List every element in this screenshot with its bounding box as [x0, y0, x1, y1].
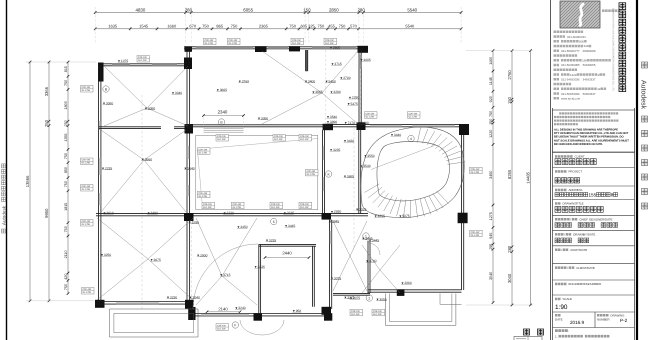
svg-text:50339055: 50339055 — [583, 63, 596, 67]
svg-text:14485: 14485 — [525, 171, 530, 183]
svg-text:C2K-1W: C2K-1W — [471, 231, 481, 234]
svg-text:C2K-1W: C2K-1W — [203, 203, 213, 206]
svg-text:NUMBER: NUMBER — [589, 282, 602, 286]
svg-text:GL1.2W: GL1.2W — [300, 206, 309, 209]
dim extension connectors — [26, 51, 533, 305]
svg-text:BE CHECKED ANDVERIFIED ON SITE: BE CHECKED ANDVERIFIED ON SITE. — [554, 143, 603, 146]
svg-text::: : — [568, 329, 569, 333]
svg-text:DATE: DATE — [555, 318, 563, 322]
svg-text:618: 618 — [584, 44, 589, 48]
svg-text:BY/DATE: BY/DATE — [583, 233, 595, 237]
svg-text:ADDRESS: ADDRESS — [569, 188, 583, 192]
svg-text:GL1.2W: GL1.2W — [373, 313, 382, 316]
svg-text:155: 155 — [589, 193, 597, 198]
svg-text:DESIGNER/DATE: DESIGNER/DATE — [589, 218, 612, 222]
top-left room top wall — [98, 64, 189, 66]
svg-text:750: 750 — [64, 181, 68, 187]
svg-text:CLIENT: CLIENT — [575, 155, 586, 159]
door arc bottom-centre room — [193, 244, 258, 309]
svg-text:1660: 1660 — [167, 24, 177, 29]
right Autodesk watermark text — [640, 62, 648, 209]
svg-text:NOT SCALE DRAWINGS.ALL ARE ASU: NOT SCALE DRAWINGS.ALL ARE ASUREHEMENTS … — [554, 139, 629, 142]
svg-text:865: 865 — [216, 24, 223, 29]
svg-text:12: 12 — [597, 87, 601, 91]
svg-text:2340: 2340 — [218, 110, 228, 115]
svg-text:920: 920 — [489, 96, 493, 102]
svg-text:C2K-1W: C2K-1W — [300, 203, 310, 206]
svg-text:2140: 2140 — [218, 307, 228, 312]
svg-text:CHIEF: CHIEF — [579, 218, 588, 222]
right dim inner — [492, 51, 494, 303]
svg-text:GL1.2W: GL1.2W — [205, 42, 214, 45]
svg-text:670: 670 — [189, 24, 196, 29]
window label boxes — [81, 86, 94, 93]
wall x359 below top — [359, 49, 361, 124]
svg-text:C2K-1W: C2K-1W — [292, 39, 302, 42]
diagonals centre upper space — [262, 51, 358, 124]
hall room outline — [196, 135, 318, 209]
svg-text:C2K-1W: C2K-1W — [138, 56, 148, 59]
svg-text:6055: 6055 — [243, 7, 253, 12]
diagonals left mid room — [101, 130, 186, 212]
wing bottom wall y290 — [368, 290, 462, 292]
svg-text:GL1.2W: GL1.2W — [471, 234, 480, 237]
top dimension chain row1 — [95, 12, 461, 14]
right wing top wall y125 — [323, 125, 469, 127]
svg-text:021-34693336: 021-34693336 — [561, 78, 580, 82]
svg-text:GL1.2W: GL1.2W — [292, 42, 301, 45]
svg-text:www.sy-sj.com: www.sy-sj.com — [561, 97, 581, 101]
top centre wall y47 — [184, 47, 368, 49]
bottom centre wall y313.5 — [195, 314, 324, 316]
svg-text:1220: 1220 — [489, 130, 493, 138]
left Autodesk watermark text — [2, 164, 7, 233]
stair west wall x359.5 — [359, 130, 361, 214]
svg-text:C2K-1W: C2K-1W — [83, 288, 93, 291]
svg-text:1:90: 1:90 — [555, 304, 568, 311]
disclaimer box — [553, 110, 635, 152]
svg-text:1229: 1229 — [570, 73, 577, 77]
balcony bottom-left — [110, 309, 198, 337]
svg-text:TITLE: TITLE — [576, 202, 584, 206]
svg-text:295: 295 — [489, 244, 493, 250]
legend title — [524, 329, 530, 335]
wall x368 lower right rooms — [368, 241, 370, 293]
svg-text:815: 815 — [64, 66, 68, 72]
svg-text:750: 750 — [64, 153, 68, 159]
svg-text:Autodesk: Autodesk — [640, 80, 648, 110]
svg-text:GL1.2W: GL1.2W — [217, 327, 226, 330]
svg-text:800: 800 — [579, 40, 584, 44]
staircase treads top-right — [417, 128, 465, 165]
svg-text:850: 850 — [64, 167, 68, 173]
svg-text:325: 325 — [308, 24, 315, 29]
stub wall x306 — [306, 50, 308, 71]
hall diagonals — [197, 139, 317, 202]
svg-text:5540: 5540 — [405, 24, 415, 29]
svg-text:750: 750 — [64, 226, 68, 232]
svg-text:2016.9: 2016.9 — [570, 320, 584, 325]
svg-text:1145: 1145 — [489, 77, 493, 85]
svg-text:SHANGHAI SHENYUAN BUILDING DEC: SHANGHAI SHENYUAN BUILDING DECORATION EN… — [612, 8, 615, 91]
svg-text:021-56653336: 021-56653336 — [561, 92, 580, 96]
svg-text:GL1.2W: GL1.2W — [366, 115, 375, 118]
svg-text:GL1.2W: GL1.2W — [351, 313, 360, 316]
svg-text:GL1.2W: GL1.2W — [82, 223, 91, 226]
svg-text:GL1.2W: GL1.2W — [199, 151, 208, 154]
left sheet border line — [6, 0, 8, 340]
left dim outer 13566 — [29, 62, 31, 301]
elevation markers — [118, 59, 129, 63]
svg-text:570: 570 — [350, 24, 357, 29]
hall top wall y125 — [185, 125, 330, 127]
svg-text:250: 250 — [44, 119, 49, 127]
svg-text:250: 250 — [64, 120, 68, 126]
svg-text:2110: 2110 — [64, 250, 68, 258]
svg-text:1545: 1545 — [139, 24, 149, 29]
svg-text:3366: 3366 — [44, 86, 49, 96]
wing left wall x322 — [323, 130, 325, 214]
title block rows — [553, 152, 635, 154]
svg-text:8255: 8255 — [507, 169, 512, 179]
svg-text:GL1.2W: GL1.2W — [300, 138, 309, 141]
svg-text:C2K-1W: C2K-1W — [205, 39, 215, 42]
svg-text:GL1.2W: GL1.2W — [307, 173, 316, 176]
svg-text:C2K-1W: C2K-1W — [300, 135, 310, 138]
wall y293 right of room — [333, 293, 370, 295]
svg-text:ALL DESIGNS IN THIS DRAWING AR: ALL DESIGNS IN THIS DRAWING ARE THEPROPE — [554, 129, 618, 132]
svg-text:BE USEDIN THOUT THEIR WRITTEN: BE USEDIN THOUT THEIR WRITTEN PERMISSION… — [554, 136, 624, 139]
svg-text:GL1.2W: GL1.2W — [199, 195, 208, 198]
svg-text:750: 750 — [289, 24, 296, 29]
svg-text:AUDIT/DATE: AUDIT/DATE — [570, 248, 587, 252]
staircase inner eye — [377, 142, 450, 201]
bottom-left exterior wall — [95, 302, 194, 305]
svg-text:1800: 1800 — [64, 101, 68, 109]
svg-text:2440: 2440 — [282, 251, 292, 256]
svg-text:2365: 2365 — [259, 24, 269, 29]
svg-text:605: 605 — [300, 24, 307, 29]
svg-text:420: 420 — [64, 274, 68, 280]
right dim outer 14485 — [530, 51, 532, 305]
staircase outer curve — [361, 127, 464, 218]
door arc balcony bottom — [240, 320, 284, 335]
svg-text:945: 945 — [489, 233, 493, 239]
right sheet border line — [636, 0, 638, 340]
svg-text:GL1.2W: GL1.2W — [229, 42, 238, 45]
svg-text:021-66080434: 021-66080434 — [567, 35, 586, 39]
svg-text:GL1.2W: GL1.2W — [274, 138, 283, 141]
vertical company name — [619, 3, 626, 10]
svg-text:GL1.2W: GL1.2W — [271, 206, 280, 209]
svg-text:C2K-1W: C2K-1W — [233, 203, 243, 206]
svg-text:021-55666777: 021-55666777 — [561, 49, 580, 53]
svg-text:GL1.2W: GL1.2W — [409, 115, 418, 118]
svg-text:DRAWING: DRAWING — [611, 314, 626, 318]
svg-text:3450: 3450 — [489, 171, 493, 179]
left exterior wall — [99, 64, 101, 301]
svg-text:750: 750 — [231, 24, 238, 29]
svg-text:GL1.2W: GL1.2W — [82, 188, 91, 191]
svg-text:750: 750 — [202, 24, 209, 29]
main mid wall y214 — [96, 214, 368, 216]
svg-text:C2K-1W: C2K-1W — [274, 135, 284, 138]
svg-text:280: 280 — [185, 7, 193, 12]
svg-text:1.: 1. — [555, 335, 558, 339]
svg-text:GL1.2W: GL1.2W — [471, 171, 480, 174]
svg-text:GL1.2W: GL1.2W — [83, 291, 92, 294]
svg-text:750: 750 — [339, 24, 346, 29]
svg-text:1355: 1355 — [64, 133, 68, 141]
svg-text:C2K-1W: C2K-1W — [307, 170, 317, 173]
svg-text:C2K-1W: C2K-1W — [217, 325, 227, 328]
svg-text:CLIENT/DATE: CLIENT/DATE — [576, 266, 595, 270]
column top wall x289 — [289, 46, 300, 51]
svg-text:C2K-1W: C2K-1W — [471, 168, 481, 171]
svg-text:150: 150 — [303, 7, 311, 12]
svg-text:56653337: 56653337 — [583, 92, 596, 96]
svg-text:C2K-1W: C2K-1W — [229, 39, 239, 42]
wall x330 bottom rooms — [330, 220, 332, 309]
svg-text:C2K-1W: C2K-1W — [82, 159, 92, 162]
svg-text:ENGINEERING: ENGINEERING — [569, 282, 590, 286]
svg-text:750: 750 — [64, 80, 68, 86]
column top right — [358, 46, 369, 53]
diagonals left bottom room — [97, 218, 193, 300]
address block tiny lines — [554, 31, 557, 34]
svg-text:455: 455 — [328, 24, 335, 29]
svg-text:65080088: 65080088 — [583, 49, 596, 53]
svg-text:C2K-1W: C2K-1W — [82, 185, 92, 188]
svg-text:13566: 13566 — [25, 175, 30, 187]
svg-text:2: 2 — [368, 296, 370, 300]
svg-text:9950: 9950 — [44, 208, 49, 218]
svg-text:6: 6 — [273, 220, 275, 224]
svg-text:PROJECT: PROJECT — [569, 170, 583, 174]
reference bubbles — [103, 86, 109, 92]
svg-text:C2K-1W: C2K-1W — [325, 39, 335, 42]
door arc right room — [368, 243, 380, 255]
left dim inner — [67, 62, 69, 294]
corner column top-left — [98, 63, 104, 82]
svg-text:GL1.2W: GL1.2W — [217, 138, 226, 141]
svg-text:C2K-1W: C2K-1W — [366, 113, 376, 116]
svg-text:280: 280 — [357, 7, 365, 12]
svg-text:750: 750 — [489, 111, 493, 117]
svg-text:150: 150 — [489, 119, 493, 125]
svg-text:C2K-1W: C2K-1W — [82, 220, 92, 223]
svg-text:5540: 5540 — [407, 7, 417, 12]
window sill band below hall top wall — [204, 129, 244, 133]
diagonals bottom right rooms — [333, 221, 367, 291]
staircase treads bottom-left — [365, 184, 449, 218]
svg-text:SCALE: SCALE — [563, 297, 573, 301]
bottom-left corner column — [95, 300, 105, 308]
svg-text:NUMBER: NUMBER — [597, 318, 610, 322]
svg-text:750: 750 — [318, 24, 325, 29]
svg-text:RTY OFSHENYUAN DECORATION CO.,: RTY OFSHENYUAN DECORATION CO.,LTD AND CA… — [554, 132, 629, 135]
svg-text:GL1.2W: GL1.2W — [82, 89, 91, 92]
svg-text:280: 280 — [507, 245, 512, 253]
svg-text:1815: 1815 — [64, 203, 68, 211]
interior wall y127 left rooms — [99, 127, 161, 129]
svg-text:GL1.2W: GL1.2W — [233, 206, 242, 209]
columns on x187 spine — [185, 46, 193, 52]
svg-text:C2K-1W: C2K-1W — [409, 113, 419, 116]
title block frame — [550, 0, 552, 340]
svg-text:GL1.2W: GL1.2W — [138, 59, 147, 62]
svg-text:C2K-1W: C2K-1W — [199, 149, 209, 152]
svg-text:021-50339055: 021-50339055 — [561, 63, 580, 67]
svg-text:F: F — [234, 323, 236, 327]
balcony bottom-right stepped — [385, 294, 456, 326]
svg-text:4830: 4830 — [136, 7, 146, 12]
svg-text:1635: 1635 — [108, 24, 118, 29]
svg-text:C2K-1W: C2K-1W — [82, 86, 92, 89]
svg-text:C2K-1W: C2K-1W — [351, 310, 361, 313]
svg-text:C2K-1W: C2K-1W — [271, 203, 281, 206]
svg-text:GL1.2W: GL1.2W — [203, 206, 212, 209]
svg-text:1160: 1160 — [489, 57, 493, 65]
svg-text:4: 4 — [410, 137, 412, 141]
svg-text:P-2: P-2 — [620, 318, 628, 323]
wall x187 vertical spine — [187, 47, 190, 301]
svg-text:C2K-1W: C2K-1W — [199, 192, 209, 195]
top dimension chain row2 — [95, 28, 461, 30]
svg-text:34693337: 34693337 — [583, 78, 596, 82]
svg-text:3040: 3040 — [507, 273, 512, 283]
svg-text:GL1.2W: GL1.2W — [325, 42, 334, 45]
dashed centre lines — [141, 95, 143, 310]
columns bottom centre — [188, 307, 195, 320]
diagonals left top room — [104, 66, 188, 126]
svg-text:GL1.2W: GL1.2W — [82, 162, 91, 165]
svg-text:Autodesk: Autodesk — [2, 205, 7, 225]
column mid top wall — [255, 46, 267, 52]
svg-text:750: 750 — [64, 284, 68, 290]
svg-text:3040: 3040 — [489, 272, 493, 280]
svg-text:C2K-1W: C2K-1W — [373, 310, 383, 313]
diagonals bottom centre room — [196, 218, 257, 305]
svg-text:199: 199 — [582, 59, 587, 63]
svg-text:C2K-1W: C2K-1W — [217, 135, 227, 138]
staircase chord line — [371, 145, 436, 170]
svg-text:2850: 2850 — [329, 7, 339, 12]
top extension lines — [95, 7, 461, 44]
svg-text:150: 150 — [507, 96, 512, 104]
right dim middle — [511, 51, 513, 305]
left dim middle — [48, 62, 50, 301]
svg-text:2760: 2760 — [507, 70, 512, 80]
room B walls — [259, 244, 261, 313]
svg-text:1275: 1275 — [489, 212, 493, 220]
wing right wall x461.5 — [462, 135, 464, 290]
